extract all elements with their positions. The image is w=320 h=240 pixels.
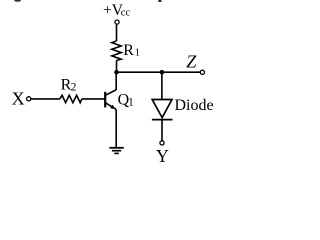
wire X terminal to R2	[31, 98, 60, 100]
svg-text:1: 1	[128, 97, 134, 109]
svg-text:1: 1	[135, 48, 140, 59]
terminal Y	[160, 141, 164, 145]
wire node B to diode anode	[161, 72, 163, 99]
terminal +Vcc	[115, 20, 119, 24]
svg-text:2: 2	[71, 82, 77, 94]
svg-text:Z: Z	[186, 52, 197, 72]
svg-text:X: X	[12, 89, 25, 109]
resistor R1	[112, 41, 121, 61]
resistor R2	[60, 95, 82, 102]
wire Vcc terminal to R1	[116, 24, 118, 41]
wire Q1 emitter to ground	[115, 109, 117, 148]
wire R2 to Q1 base	[82, 98, 105, 100]
svg-text:Diode: Diode	[175, 97, 214, 114]
svg-text:R: R	[123, 42, 134, 59]
wire node A to terminal Z	[117, 71, 201, 73]
wire Q1 collector to node A	[115, 72, 117, 90]
terminal Z	[200, 70, 204, 74]
node A junction	[114, 70, 119, 75]
wire diode cathode to terminal Y	[161, 120, 163, 141]
terminal X	[27, 97, 31, 101]
wire R1 to node A	[116, 61, 118, 73]
node B junction (diode tap)	[160, 70, 165, 75]
svg-text:cc: cc	[121, 8, 131, 19]
ground	[109, 148, 124, 154]
transistor Q1	[105, 90, 116, 109]
svg-text:Y: Y	[156, 146, 169, 166]
diode D1	[152, 100, 172, 118]
